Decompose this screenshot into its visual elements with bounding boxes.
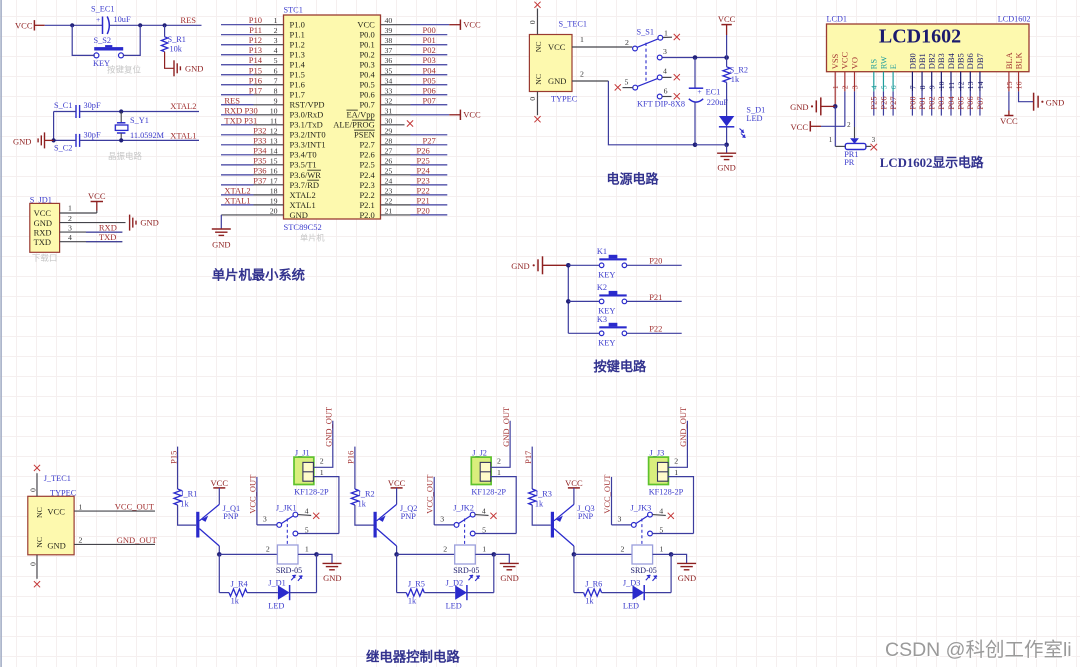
- svg-text:P23: P23: [417, 175, 430, 185]
- ground GND (crystal): [13, 132, 54, 148]
- svg-text:P3.4/T0: P3.4/T0: [290, 150, 317, 160]
- U1 pin 37 P0.2 net P02: [359, 45, 447, 59]
- svg-text:P05: P05: [423, 75, 436, 85]
- svg-text:GND: GND: [1046, 97, 1064, 107]
- svg-text:32: 32: [385, 96, 393, 105]
- svg-text:35: 35: [385, 66, 393, 75]
- svg-text:P1.3: P1.3: [290, 50, 305, 60]
- node junction right of S_EC1: [138, 23, 142, 27]
- svg-text:P27: P27: [423, 135, 436, 145]
- svg-text:10: 10: [270, 106, 278, 115]
- LCD1 pin 13 DB6 net P06: [965, 53, 975, 115]
- S_TEC1 pin 2 wire to ground rail: [572, 69, 695, 145]
- LCD1 pin 16 BLK: [1013, 51, 1023, 89]
- svg-text:J_D2: J_D2: [446, 579, 464, 588]
- LCD module LCD1 body: [827, 15, 1031, 72]
- wire J_JK2 pin 5 to J_J2 pin 1: [475, 533, 516, 535]
- U1 pin 13 P3.3/INT1 net P33: [221, 135, 326, 149]
- svg-text:4: 4: [305, 506, 309, 515]
- U1 pin 6 P1.5 net P15: [221, 65, 305, 79]
- U1 pin 15 P3.5/T1 net P35: [221, 155, 317, 169]
- svg-text:P1.0: P1.0: [290, 20, 305, 30]
- switch S_S1 pin 6 stub: [657, 86, 680, 99]
- node junction K2 branch: [566, 299, 571, 304]
- wire J_JK3 pin 5 to J_J3 pin 1: [653, 533, 694, 535]
- svg-text:P03: P03: [936, 96, 946, 109]
- LED J_D2: [446, 575, 480, 611]
- svg-text:J_R3: J_R3: [535, 489, 552, 498]
- svg-text:KF128-2P: KF128-2P: [649, 488, 684, 497]
- svg-text:10k: 10k: [170, 45, 183, 54]
- svg-text:2: 2: [625, 38, 629, 47]
- svg-text:下载口: 下载口: [32, 253, 58, 263]
- wire P17 to J_R3: [531, 447, 533, 489]
- svg-text:P05: P05: [956, 96, 966, 109]
- U1 pin 18 XTAL2 net XTAL2: [221, 185, 316, 199]
- svg-text:P3.1/TxD: P3.1/TxD: [290, 120, 323, 130]
- wire K1 to net P20: [627, 256, 682, 266]
- svg-text:J_J1: J_J1: [295, 449, 310, 458]
- switch J_JK1: [263, 503, 319, 544]
- svg-text:VO: VO: [849, 57, 859, 69]
- svg-text:XTAL2: XTAL2: [224, 185, 250, 195]
- svg-text:P0.3: P0.3: [359, 60, 374, 70]
- U1 pin 4 P1.3 net P13: [221, 45, 305, 59]
- svg-text:1: 1: [674, 468, 678, 477]
- U1 pin 21 P2.0 net P20: [359, 205, 447, 219]
- svg-text:XTAL2: XTAL2: [290, 190, 316, 200]
- svg-text:RES: RES: [224, 95, 240, 105]
- sheet border left edge: [0, 0, 2, 667]
- svg-text:10uF: 10uF: [114, 15, 131, 24]
- power port VCC (download): [88, 191, 106, 201]
- wire K1 left: [568, 264, 599, 266]
- svg-text:J_JK3: J_JK3: [631, 503, 652, 512]
- svg-text:2: 2: [443, 544, 447, 553]
- svg-text:3: 3: [68, 223, 72, 232]
- svg-text:VCC: VCC: [1000, 116, 1018, 126]
- svg-text:P33: P33: [253, 135, 266, 145]
- U1 pin 24 P2.3 net P23: [359, 175, 447, 189]
- svg-text:S_C1: S_C1: [54, 101, 72, 110]
- svg-text:J_J2: J_J2: [472, 449, 487, 458]
- ground GND (LCD left): [790, 97, 835, 115]
- svg-text:GND: GND: [212, 240, 230, 250]
- node junction relay right: [669, 552, 674, 557]
- svg-text:NC: NC: [534, 41, 543, 52]
- U1 pin 32 P0.7 net P07: [359, 95, 447, 109]
- key S_S2 KEY (reset button): [93, 36, 124, 68]
- net label VCC_OUT (rotated): [247, 474, 257, 514]
- svg-text:GND_OUT: GND_OUT: [501, 406, 511, 447]
- wire J_R6 to J_D3: [602, 592, 633, 594]
- connector S_TEC1 TYPEC body: [529, 20, 587, 104]
- svg-text:K1: K1: [597, 247, 607, 256]
- switch S_S1 pin 3 wire to rail: [657, 47, 726, 60]
- svg-text:24: 24: [385, 176, 393, 185]
- svg-text:0: 0: [528, 97, 537, 101]
- transistor J_Q3 PNP: [551, 504, 595, 554]
- U1 pin 20 GND to ground: [212, 206, 308, 249]
- svg-text:DB1: DB1: [917, 53, 927, 69]
- svg-text:S_S2: S_S2: [94, 36, 112, 45]
- svg-text:PSEN: PSEN: [354, 130, 375, 140]
- wire branch down: [397, 554, 407, 592]
- wire relay pin1 to gnd rail: [653, 553, 672, 555]
- svg-text:P0.7: P0.7: [359, 100, 374, 110]
- svg-text:4: 4: [68, 233, 72, 242]
- svg-text:1k: 1k: [231, 596, 240, 605]
- svg-text:LCD1602显示电路: LCD1602显示电路: [880, 155, 984, 170]
- wire left branch to S_S2: [72, 25, 95, 55]
- svg-text:晶振电路: 晶振电路: [108, 151, 143, 161]
- title 电源电路: [607, 172, 660, 187]
- svg-text:9: 9: [274, 96, 278, 105]
- svg-text:P22: P22: [417, 185, 430, 195]
- svg-text:LCD1602: LCD1602: [879, 26, 961, 48]
- wire K3 left: [568, 332, 599, 334]
- svg-text:2: 2: [847, 121, 851, 129]
- svg-text:P14: P14: [249, 55, 263, 65]
- U1 pin 30 ALE/PROG no-connect X: [333, 116, 413, 129]
- title 继电器控制电路: [366, 649, 460, 665]
- svg-text:LCD1: LCD1: [827, 15, 847, 24]
- J_J2 pin 1 wire to J_JK2 pin 5: [491, 468, 517, 534]
- svg-text:1: 1: [497, 468, 501, 477]
- svg-text:J_J3: J_J3: [650, 449, 665, 458]
- svg-text:P1.6: P1.6: [290, 80, 305, 90]
- wire P16 to J_R2: [354, 447, 356, 489]
- svg-text:17: 17: [270, 176, 278, 185]
- svg-text:P17: P17: [249, 85, 262, 95]
- U1 pin 2 P1.1 net P11: [221, 25, 305, 39]
- svg-text:LCD1602: LCD1602: [998, 15, 1031, 24]
- svg-text:13: 13: [270, 136, 278, 145]
- svg-text:P25: P25: [417, 155, 430, 165]
- svg-text:PNP: PNP: [223, 512, 239, 521]
- LED S_D1: [719, 105, 765, 144]
- svg-text:RST/VPD: RST/VPD: [290, 100, 325, 110]
- svg-text:37: 37: [385, 46, 393, 55]
- svg-text:P26: P26: [878, 96, 888, 109]
- S_TEC1 top stub with no-ERC X: [528, 2, 541, 35]
- svg-text:3: 3: [440, 515, 444, 524]
- svg-text:1k: 1k: [180, 500, 189, 509]
- node junction XTAL1 at crystal: [119, 138, 123, 142]
- wire VCC_OUT to J_JK3 pin 3: [612, 477, 632, 525]
- svg-text:1: 1: [320, 468, 324, 477]
- power port VCC (J_Q3): [565, 478, 583, 505]
- svg-text:1: 1: [664, 28, 668, 37]
- svg-text:+: +: [96, 15, 100, 24]
- svg-text:PNP: PNP: [578, 512, 594, 521]
- LCD1 pin 7 DB0 net P00: [907, 53, 917, 115]
- resistor J_R5 1k: [406, 580, 425, 606]
- svg-text:2: 2: [79, 536, 83, 545]
- svg-text:11.0592M: 11.0592M: [130, 131, 165, 140]
- svg-text:P25: P25: [869, 96, 879, 109]
- U1 pin 23 P2.2 net P22: [359, 185, 447, 199]
- wire J_R4 to J_D1: [247, 592, 278, 594]
- wire XTAL2 rail: [54, 111, 199, 113]
- S_TEC1 bottom stub with no-ERC X: [528, 92, 541, 123]
- svg-text:GND: GND: [548, 76, 566, 86]
- node junction EC1 top: [693, 55, 698, 60]
- svg-text:K2: K2: [597, 283, 607, 292]
- svg-text:KF128-2P: KF128-2P: [294, 488, 329, 497]
- node junction collector rail: [217, 552, 222, 557]
- svg-text:P35: P35: [253, 155, 266, 165]
- svg-text:1k: 1k: [585, 596, 594, 605]
- svg-text:VCC: VCC: [463, 20, 481, 30]
- switch J_JK2: [440, 503, 496, 544]
- connector J_J3 KF128-2P: [649, 449, 684, 497]
- svg-text:LED: LED: [623, 602, 639, 611]
- svg-text:P2.2: P2.2: [359, 190, 374, 200]
- svg-text:按键电路: 按键电路: [594, 358, 648, 374]
- svg-text:P37: P37: [253, 175, 266, 185]
- svg-text:26: 26: [385, 156, 393, 165]
- svg-text:P2.4: P2.4: [359, 170, 375, 180]
- U1 pin 40 VCC to VCC port: [357, 16, 481, 30]
- wire XTAL1 rail: [54, 139, 199, 141]
- svg-text:单片机: 单片机: [300, 233, 325, 243]
- svg-text:S_R1: S_R1: [168, 35, 186, 44]
- J_TEC1 pin 1 net VCC_OUT: [74, 502, 155, 512]
- svg-text:P03: P03: [423, 55, 436, 65]
- svg-text:2: 2: [497, 457, 501, 466]
- resistor J_R6 1k: [584, 580, 603, 606]
- svg-text:BLK: BLK: [1013, 51, 1023, 69]
- svg-text:22: 22: [385, 196, 393, 205]
- ground GND (reset): [174, 60, 203, 76]
- svg-text:GND: GND: [47, 540, 65, 550]
- net label P16 (rotated): [346, 451, 356, 464]
- svg-text:VCC: VCC: [88, 191, 106, 201]
- U1 pin 38 P0.1 net P01: [359, 35, 447, 49]
- svg-text:DB6: DB6: [965, 53, 975, 69]
- svg-text:NC: NC: [534, 74, 543, 85]
- svg-text:XTAL1: XTAL1: [290, 200, 316, 210]
- svg-text:P06: P06: [423, 85, 436, 95]
- title 按键电路: [594, 358, 648, 374]
- wire cap ground link: [53, 112, 55, 141]
- svg-text:TXD: TXD: [34, 237, 51, 247]
- svg-text:28: 28: [385, 136, 393, 145]
- svg-text:GND: GND: [717, 162, 735, 172]
- svg-text:J_R4: J_R4: [231, 580, 249, 589]
- power port VCC (reset circuit): [15, 20, 45, 30]
- node junction VSS/GND: [833, 104, 838, 109]
- svg-text:P00: P00: [907, 96, 917, 109]
- svg-text:GND_OUT: GND_OUT: [324, 406, 334, 447]
- svg-text:36: 36: [385, 56, 393, 65]
- svg-text:VCC: VCC: [47, 506, 65, 516]
- svg-text:VCC: VCC: [463, 110, 481, 120]
- svg-text:27: 27: [385, 146, 393, 155]
- svg-text:EC1: EC1: [706, 87, 721, 96]
- svg-text:P0.2: P0.2: [359, 50, 374, 60]
- svg-text:1k: 1k: [731, 75, 740, 84]
- svg-text:21: 21: [385, 206, 393, 215]
- svg-text:P1.1: P1.1: [290, 30, 305, 40]
- LCD1 pin 14 DB7 net P07: [975, 53, 985, 115]
- LCD1 pin 8 DB1 net P01: [917, 53, 927, 115]
- svg-text:P1.4: P1.4: [290, 60, 306, 70]
- svg-text:按键复位: 按键复位: [107, 65, 142, 75]
- PR1 pin 3 stub with no-ERC X: [866, 136, 877, 151]
- J_TEC1 top stub with no-ERC X: [28, 465, 40, 497]
- svg-text:P27: P27: [888, 96, 898, 109]
- power port VCC (J_Q1): [211, 478, 229, 505]
- svg-text:DB0: DB0: [907, 53, 917, 69]
- svg-text:P15: P15: [249, 65, 262, 75]
- ground rail junction EC1 bottom: [693, 143, 698, 148]
- svg-text:P0.6: P0.6: [359, 90, 374, 100]
- svg-text:P20: P20: [417, 205, 430, 215]
- svg-text:P32: P32: [253, 125, 266, 135]
- svg-text:1: 1: [580, 35, 584, 44]
- svg-text:P04: P04: [423, 65, 437, 75]
- svg-text:GND_OUT: GND_OUT: [117, 535, 158, 545]
- LCD1 pin 11 DB4 net P04: [946, 52, 956, 115]
- LCD1 pin 2 VCC: [840, 51, 850, 89]
- J_J1 pin 1 wire to J_JK1 pin 5: [313, 468, 339, 534]
- svg-text:P07: P07: [423, 95, 436, 105]
- capacitor S_C2 30pF: [54, 131, 101, 153]
- switch S_S1 section 4-5: [615, 67, 680, 91]
- svg-text:SRD-05: SRD-05: [631, 566, 657, 575]
- svg-text:1: 1: [482, 544, 486, 553]
- LCD1 pin 4 RS net P25: [869, 59, 879, 116]
- svg-text:E: E: [888, 64, 898, 69]
- svg-text:VCC: VCC: [15, 20, 33, 30]
- S_JD1 pin 2 wire to GND: [60, 214, 126, 223]
- S_JD1 pin 3 wire net RXD: [60, 222, 123, 232]
- svg-text:P3.2/INT0: P3.2/INT0: [290, 130, 326, 140]
- svg-text:GND: GND: [511, 261, 529, 271]
- svg-text:5: 5: [625, 77, 629, 86]
- svg-text:3: 3: [663, 47, 667, 56]
- svg-text:TYPEC: TYPEC: [50, 489, 77, 498]
- svg-text:33: 33: [385, 86, 393, 95]
- svg-text:DB5: DB5: [956, 53, 966, 69]
- wire collector to relay: [574, 553, 632, 555]
- svg-text:KF128-2P: KF128-2P: [471, 488, 506, 497]
- svg-text:SRD-05: SRD-05: [453, 566, 479, 575]
- svg-text:KFT DIP-8X8: KFT DIP-8X8: [637, 100, 685, 109]
- U1 pin 19 XTAL1 net XTAL1: [221, 195, 316, 209]
- wire VCC_OUT to J_JK2 pin 3: [434, 477, 454, 525]
- svg-text:25: 25: [385, 166, 393, 175]
- wire collector to relay: [219, 553, 277, 555]
- svg-text:ALE/PROG: ALE/PROG: [333, 120, 375, 130]
- svg-text:XTAL1: XTAL1: [170, 130, 196, 140]
- svg-text:J_JK2: J_JK2: [453, 503, 474, 512]
- svg-text:VCC: VCC: [388, 478, 406, 488]
- switch J_JK3: [617, 503, 673, 544]
- node junction relay right: [314, 552, 319, 557]
- svg-text:J_TEC1: J_TEC1: [44, 474, 71, 483]
- LED J_D1: [268, 575, 302, 611]
- svg-text:XTAL2: XTAL2: [170, 101, 196, 111]
- svg-text:P16: P16: [249, 75, 262, 85]
- svg-text:P2.1: P2.1: [359, 200, 374, 210]
- LCD1 pin 16 BLK wire to GND: [1019, 72, 1034, 102]
- U1 pin 7 P1.6 net P16: [221, 75, 305, 89]
- U1 pin 27 P2.6 net P26: [359, 145, 447, 159]
- svg-text:VCC: VCC: [357, 20, 375, 30]
- wire J_R5 to J_D2: [424, 592, 455, 594]
- svg-text:P02: P02: [927, 96, 937, 109]
- svg-text:LED: LED: [268, 602, 284, 611]
- U1 pin 1 P1.0 net P10: [221, 15, 305, 29]
- svg-text:3: 3: [263, 515, 267, 524]
- U1 pin 11 P3.1/TxD net TXD P31: [221, 115, 323, 129]
- node junction K1 branch: [566, 263, 571, 268]
- svg-text:P22: P22: [649, 324, 662, 334]
- svg-text:P3.5/T1: P3.5/T1: [290, 160, 317, 170]
- svg-text:S_C2: S_C2: [54, 143, 72, 152]
- svg-text:VCC: VCC: [211, 478, 229, 488]
- wire collector to relay: [397, 553, 455, 555]
- svg-text:18: 18: [270, 186, 278, 195]
- svg-text:S_EC1: S_EC1: [91, 4, 115, 13]
- ground GND (relay J_R1): [317, 554, 342, 583]
- U1 pin 36 P0.3 net P03: [359, 55, 447, 69]
- wire VCC to RES rail: [45, 24, 202, 26]
- net label XTAL2: [170, 101, 196, 111]
- LED J_D3: [623, 575, 657, 611]
- svg-text:LED: LED: [746, 114, 762, 123]
- LCD1 pin 10 DB3 net P03: [936, 53, 946, 115]
- ground GND (LCD right): [1034, 93, 1065, 111]
- svg-text:P20: P20: [649, 256, 662, 266]
- svg-text:8: 8: [274, 86, 278, 95]
- node junction collector rail: [394, 552, 399, 557]
- U1 pin 26 P2.5 net P25: [359, 155, 447, 169]
- transistor J_Q1 PNP: [196, 504, 240, 554]
- svg-text:VCC: VCC: [718, 14, 736, 24]
- connector J_J1 KF128-2P: [294, 449, 329, 497]
- svg-text:VCC: VCC: [840, 51, 850, 69]
- svg-text:P02: P02: [423, 45, 436, 55]
- U1 pin 28 P2.7 net P27: [359, 135, 447, 149]
- svg-text:4: 4: [482, 506, 486, 515]
- wire branch down: [574, 554, 584, 592]
- J_TEC1 bottom stub with no-ERC X: [28, 555, 40, 588]
- U1 pin 33 P0.6 net P06: [359, 85, 447, 99]
- svg-text:S_R2: S_R2: [730, 66, 748, 75]
- power port VCC (LCD left): [791, 121, 845, 132]
- svg-text:TYPEC: TYPEC: [551, 95, 578, 104]
- capacitor S_EC1 10uF (polarized): [91, 4, 131, 34]
- svg-text:31: 31: [385, 106, 393, 115]
- svg-text:NC: NC: [35, 537, 44, 548]
- svg-text:VCC: VCC: [34, 208, 52, 218]
- resistor J_R3 1k: [529, 489, 552, 509]
- svg-text:K3: K3: [597, 315, 607, 324]
- node junction R2 top rail: [724, 55, 729, 60]
- svg-text:P15: P15: [168, 451, 178, 464]
- svg-text:P24: P24: [417, 165, 431, 175]
- LCD1 pin 15 BLA: [1004, 51, 1014, 89]
- U1 pin 12 P3.2/INT0 net P32: [221, 125, 326, 139]
- relay SRD-05 (J_JK1 coil): [266, 544, 309, 575]
- wire VCC_OUT to J_JK1 pin 3: [257, 477, 277, 525]
- svg-text:P0.4: P0.4: [359, 70, 375, 80]
- LCD1 pin 3 VO: [849, 57, 859, 89]
